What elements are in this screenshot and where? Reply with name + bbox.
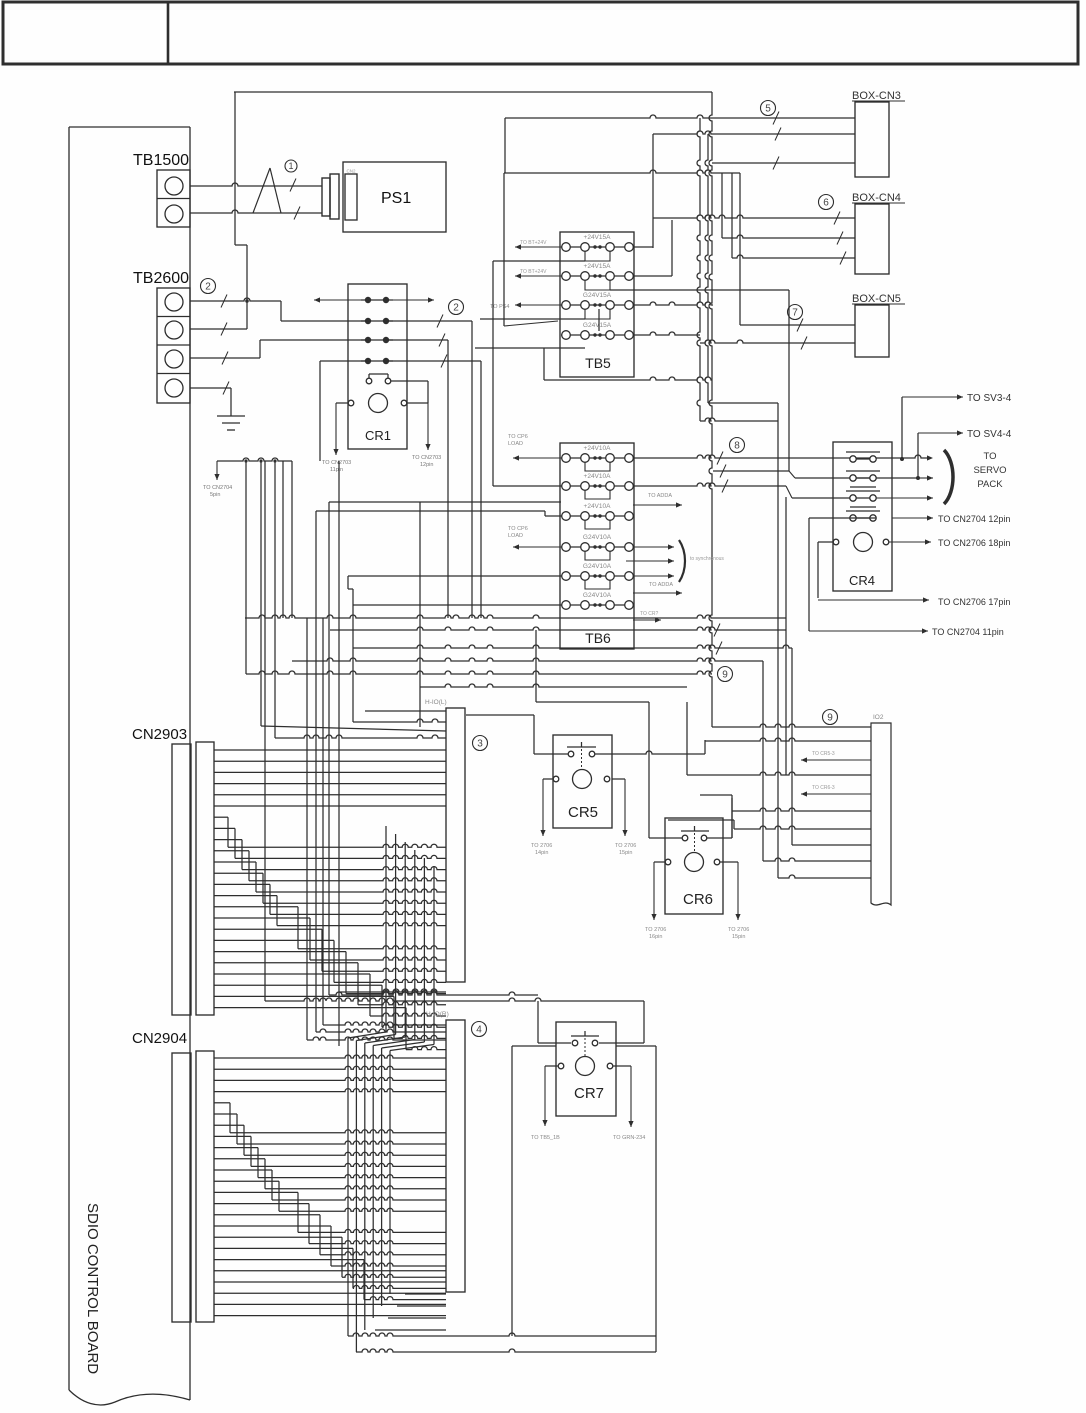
svg-text:7: 7 [792, 308, 798, 319]
svg-text:BOX-CN5: BOX-CN5 [852, 293, 901, 305]
svg-text:G24V10A: G24V10A [583, 563, 612, 570]
svg-text:15pin: 15pin [732, 934, 745, 940]
svg-text:G24V15A: G24V15A [583, 322, 612, 329]
svg-text:CR5: CR5 [568, 804, 598, 821]
svg-text:TO 2706: TO 2706 [645, 927, 666, 933]
svg-text:15pin: 15pin [619, 850, 632, 856]
svg-text:TB5: TB5 [585, 355, 611, 371]
svg-text:12pin: 12pin [420, 462, 433, 468]
svg-text:TO CP6: TO CP6 [508, 434, 528, 440]
svg-text:TO CR5-3: TO CR5-3 [812, 751, 835, 757]
svg-text:CR6: CR6 [683, 891, 713, 908]
svg-text:4: 4 [476, 1025, 482, 1036]
svg-text:TO BT+24V: TO BT+24V [520, 240, 547, 246]
svg-text:IO2: IO2 [873, 714, 884, 721]
svg-text:TO CN2706 17pin: TO CN2706 17pin [938, 597, 1010, 607]
svg-text:to synchronous: to synchronous [690, 556, 724, 562]
svg-text:TO 2706: TO 2706 [728, 927, 749, 933]
svg-text:TO TB5_1B: TO TB5_1B [531, 1135, 560, 1141]
svg-text:G24V15A: G24V15A [583, 292, 612, 299]
svg-text:2: 2 [453, 303, 459, 314]
svg-text:6: 6 [823, 198, 829, 209]
svg-text:+24V10A: +24V10A [584, 473, 612, 480]
svg-text:G24V10A: G24V10A [583, 592, 612, 599]
svg-text:SERVO: SERVO [973, 465, 1006, 476]
svg-text:CN2904: CN2904 [132, 1030, 187, 1047]
svg-text:CR4: CR4 [849, 573, 875, 588]
svg-text:PACK: PACK [977, 479, 1003, 490]
svg-text:TO CR?: TO CR? [640, 611, 658, 617]
svg-text:3: 3 [477, 739, 483, 750]
svg-text:TO ADDA: TO ADDA [649, 582, 673, 588]
svg-text:14pin: 14pin [535, 850, 548, 856]
svg-text:5: 5 [765, 104, 771, 115]
svg-text:H-IO(R): H-IO(R) [426, 1011, 449, 1018]
svg-text:+24V10A: +24V10A [584, 445, 612, 452]
svg-text:TO CP6: TO CP6 [508, 526, 528, 532]
svg-text:TO CN2703: TO CN2703 [412, 455, 441, 461]
svg-text:SDIO CONTROL BOARD: SDIO CONTROL BOARD [84, 1203, 101, 1374]
svg-text:11pin: 11pin [330, 467, 343, 473]
svg-text:H-IO(L): H-IO(L) [425, 699, 447, 706]
svg-text:PS1: PS1 [381, 190, 411, 207]
svg-text:BOX-CN4: BOX-CN4 [852, 192, 901, 204]
svg-text:TB6: TB6 [585, 630, 611, 646]
svg-text:TO SV4-4: TO SV4-4 [967, 429, 1012, 440]
svg-text:TO 2706: TO 2706 [531, 843, 552, 849]
svg-text:TO SV3-4: TO SV3-4 [967, 393, 1012, 404]
svg-text:LOAD: LOAD [508, 441, 523, 447]
svg-text:1: 1 [288, 161, 293, 171]
svg-text:LOAD: LOAD [508, 533, 523, 539]
svg-text:+24V15A: +24V15A [584, 263, 612, 270]
svg-text:9: 9 [722, 670, 728, 681]
svg-text:CN2903: CN2903 [132, 726, 187, 743]
svg-text:TB2600: TB2600 [133, 270, 189, 287]
svg-text:TO CN2704 11pin: TO CN2704 11pin [932, 627, 1004, 637]
svg-text:TO CN2703: TO CN2703 [322, 460, 351, 466]
svg-text:TO ADDA: TO ADDA [648, 493, 672, 499]
svg-text:+24V15A: +24V15A [584, 234, 612, 241]
svg-text:BOX-CN3: BOX-CN3 [852, 90, 901, 102]
svg-text:TO: TO [983, 451, 996, 462]
svg-text:CR1: CR1 [365, 428, 391, 443]
svg-text:TB1500: TB1500 [133, 152, 189, 169]
svg-text:16pin: 16pin [649, 934, 662, 940]
svg-text:TO CN2704 12pin: TO CN2704 12pin [938, 514, 1010, 524]
svg-text:TO 2706: TO 2706 [615, 843, 636, 849]
svg-text:9: 9 [827, 713, 833, 724]
svg-text:TO CN2706 18pin: TO CN2706 18pin [938, 538, 1010, 548]
svg-text:TO BT+24V: TO BT+24V [520, 269, 547, 275]
svg-text:5pin: 5pin [210, 492, 220, 498]
svg-text:TO CN2704: TO CN2704 [203, 485, 232, 491]
svg-text:CR7: CR7 [574, 1085, 604, 1102]
svg-text:CN2: CN2 [347, 169, 356, 174]
svg-text:8: 8 [734, 441, 740, 452]
svg-text:TO GRN-234: TO GRN-234 [613, 1135, 645, 1141]
svg-text:2: 2 [205, 282, 211, 293]
svg-text:G24V10A: G24V10A [583, 534, 612, 541]
svg-text:TO CR6-3: TO CR6-3 [812, 785, 835, 791]
svg-text:+24V10A: +24V10A [584, 503, 612, 510]
